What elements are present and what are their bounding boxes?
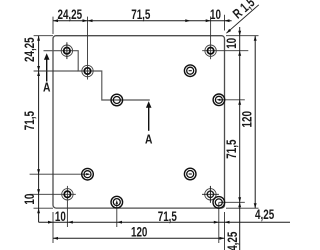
plate outline xyxy=(53,36,225,208)
left dimension line xyxy=(38,36,40,223)
ext from hole H down xyxy=(218,202,220,243)
arrow outside above 10 at E level xyxy=(37,189,40,194)
svg-text:71,5: 71,5 xyxy=(131,6,151,22)
svg-text:10: 10 xyxy=(224,37,240,48)
hole A top-left corner xyxy=(61,42,72,59)
arrow outside below 4,25 at H level xyxy=(238,202,241,207)
ext from hole K left xyxy=(30,173,89,175)
arrow right end bottom 71,5 xyxy=(214,221,219,224)
svg-text:120: 120 xyxy=(131,224,148,240)
bottom edge ext right xyxy=(226,207,259,209)
top dimension line xyxy=(53,20,232,22)
svg-text:71,5: 71,5 xyxy=(22,111,38,131)
ext from hole C right xyxy=(202,50,248,52)
bottom 120 dim line xyxy=(53,237,225,239)
ext from hole E down xyxy=(66,186,68,227)
right dim line 2 (120) xyxy=(254,36,256,209)
arrow bottom end 71,5 at K level xyxy=(37,169,40,174)
extension lines (gray thin) xyxy=(30,15,259,250)
svg-text:71,5: 71,5 xyxy=(224,139,240,159)
hole J xyxy=(184,168,196,180)
bottom chain dim line with elbow from left line xyxy=(39,221,290,223)
right edge ext down xyxy=(224,212,226,250)
bottom edge ext left xyxy=(34,207,54,209)
left edge ext up xyxy=(52,17,54,34)
arrow outside right of bottom 10 xyxy=(68,221,73,224)
hole C top-right corner xyxy=(205,45,216,56)
svg-text:A: A xyxy=(43,79,51,95)
arrow bottom end right 71,5 at H xyxy=(238,197,241,202)
arrow outside left of bottom 10 xyxy=(48,221,53,224)
arrow outside right of bottom 4,25 xyxy=(225,221,230,224)
hole E bottom-left corner xyxy=(62,189,73,200)
hole H xyxy=(213,197,225,209)
radius leader R 1,5 xyxy=(226,5,258,33)
hole B xyxy=(82,65,93,76)
ext from hole D right xyxy=(219,99,245,101)
arrow outside right of 10 xyxy=(225,19,230,22)
arrow top end right 71,5 at D xyxy=(238,100,241,105)
arrow outside below right 10 xyxy=(238,51,241,56)
svg-text:4,25: 4,25 xyxy=(255,206,275,222)
ext from hole H right xyxy=(219,201,245,203)
arrow right end 71,5 xyxy=(185,19,190,22)
arrow top end 24,25 xyxy=(37,36,40,41)
left edge ext down xyxy=(52,212,54,243)
top edge ext left xyxy=(34,35,53,37)
ext from hole B up xyxy=(87,17,89,80)
hole F center arrow accent xyxy=(116,200,118,204)
section arrow left xyxy=(44,53,50,81)
arrow outside below 10 at bottom edge xyxy=(37,208,40,213)
hole I xyxy=(184,65,196,77)
arrow outside left of 10 xyxy=(206,19,211,22)
arrow outside above right 10 xyxy=(238,31,241,36)
ext from hole E left + cross xyxy=(30,193,76,195)
section arrow right xyxy=(146,101,152,131)
hole G bottom-right corner xyxy=(202,186,219,203)
top edge ext right xyxy=(226,35,259,37)
arrows bowtie at B xyxy=(83,19,88,22)
svg-text:24,25: 24,25 xyxy=(57,6,82,22)
svg-text:24,25: 24,25 xyxy=(22,37,38,62)
hole D center arrow accent xyxy=(216,99,220,101)
svg-text:10: 10 xyxy=(55,208,66,224)
hole K center arrow accent xyxy=(86,173,90,175)
hole F xyxy=(111,196,123,208)
hole K xyxy=(82,168,94,180)
ext from hole C up + cross xyxy=(210,16,212,59)
svg-text:10: 10 xyxy=(210,6,221,22)
svg-text:71,5: 71,5 xyxy=(158,208,178,224)
svg-text:120: 120 xyxy=(239,111,255,128)
section line A-A staircase xyxy=(44,51,150,100)
hole M on section line xyxy=(111,94,123,106)
svg-text:10: 10 xyxy=(22,193,38,204)
svg-text:4,25: 4,25 xyxy=(224,231,240,250)
arrow left end 24,25 xyxy=(53,19,58,22)
right edge ext up xyxy=(224,15,226,31)
ext from hole F down xyxy=(116,202,118,227)
arrow left end bottom 71,5 xyxy=(117,221,122,224)
right dim line 1 xyxy=(239,27,241,250)
ext from hole B left xyxy=(34,70,79,72)
hole D xyxy=(213,94,225,106)
arrows bowtie at B level xyxy=(37,66,40,71)
svg-text:A: A xyxy=(145,131,153,147)
